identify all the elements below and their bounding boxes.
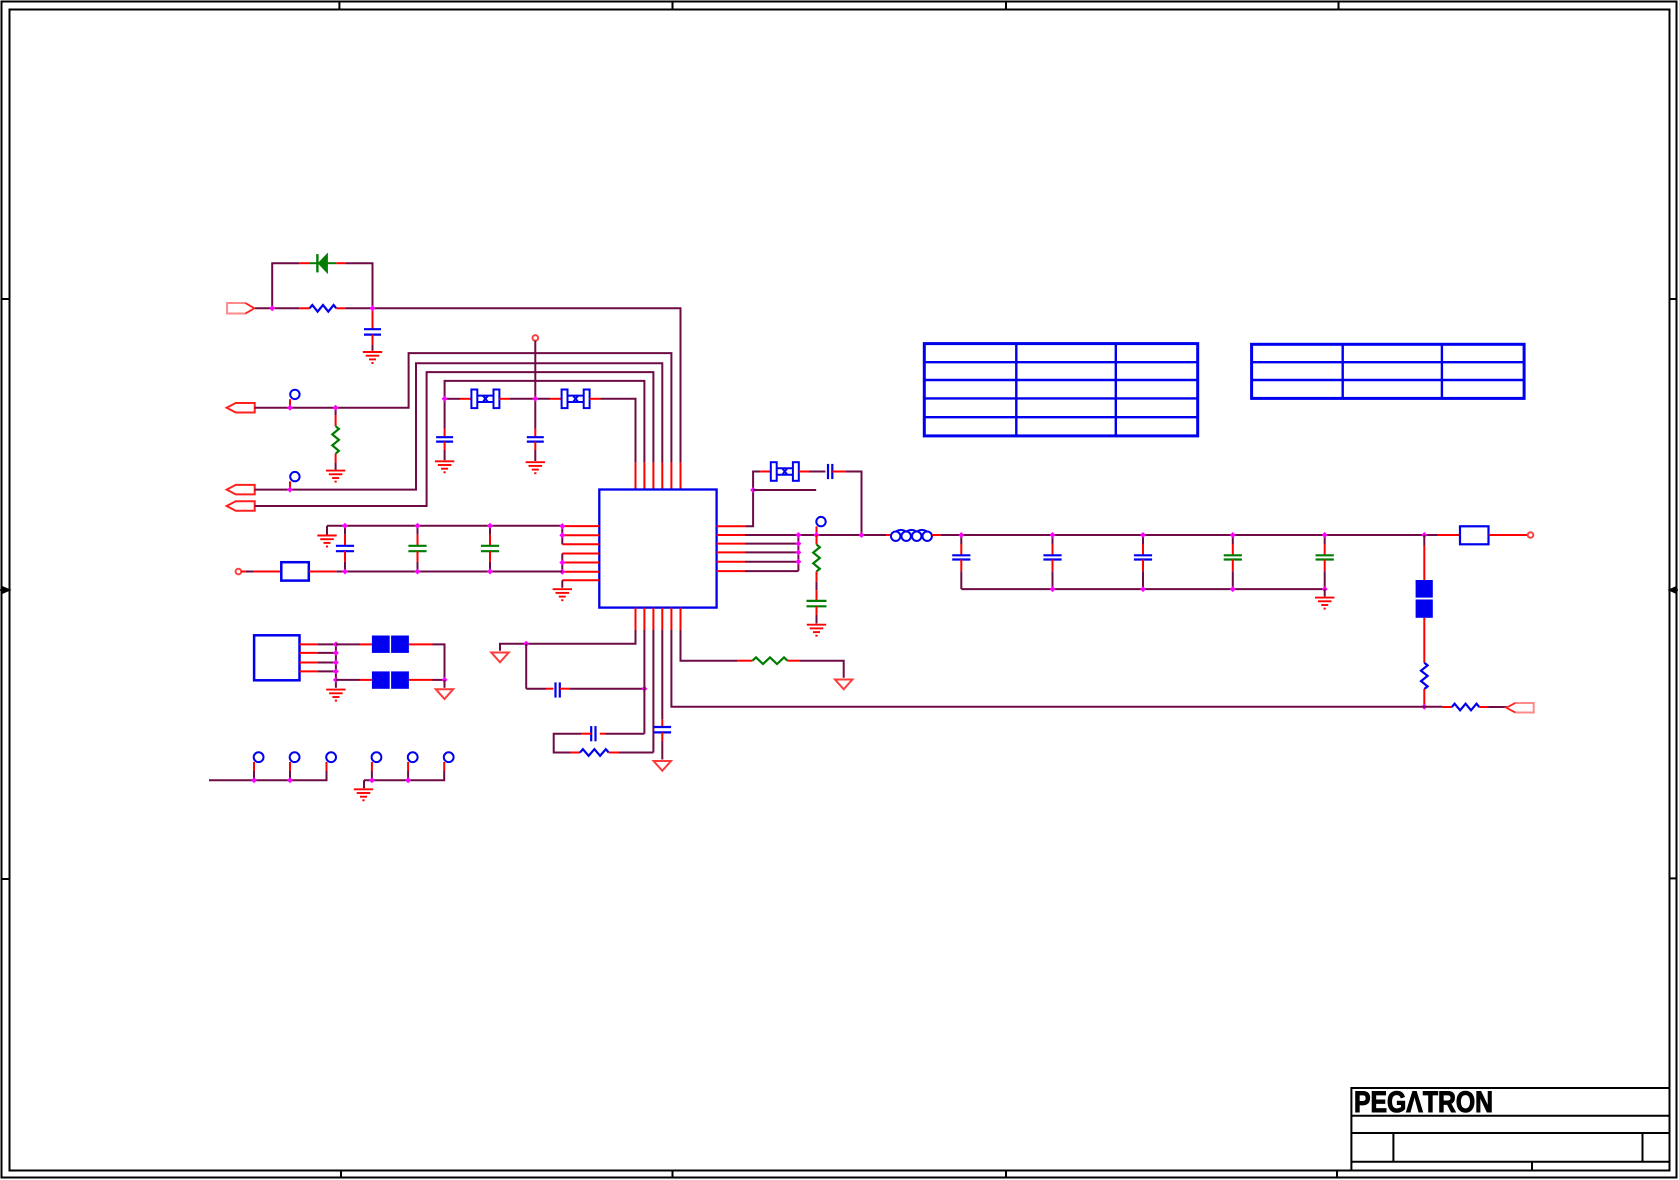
ground G9 [354,789,373,800]
wire node to triangle gnd [500,644,526,651]
IC U1 left pin 5 red [562,562,599,564]
revision table 1 [924,344,1197,436]
wire tie column right pins [797,535,799,571]
wire bottom pin4 net [661,630,663,720]
resistor R2 pin red bottom [335,454,337,463]
capacitor C6 [481,546,499,551]
capacitor C14 pin red right [560,688,570,690]
wire C15 right [606,733,645,735]
bubble circle K3 [816,517,825,526]
capacitor C5 stub bottom [417,551,419,562]
wire node B long run to IC pin 6 top [345,308,680,462]
junction C5 bus1 [415,523,421,529]
wire tie to fuse F2 [336,643,360,645]
junction node A [269,305,275,311]
capacitor C1 pin red bottom [372,335,374,345]
fuse F2 pin red right [409,643,433,645]
capacitor C9 [952,555,970,559]
resistor R1 pin red left [299,307,310,309]
testpoint TP3 stub red [326,762,328,771]
resistor R3 pin red top [816,535,818,545]
wire C14 to pin2 net [570,688,644,690]
IC U1 top pin 5 red [670,463,672,490]
wire port P1 to node A [255,307,272,309]
IC U1 bottom pin 2 red [643,608,645,630]
crystal Y3 pin red right [799,471,809,473]
resistor R6 [753,657,788,664]
wire R7 to pin3 net [619,752,653,754]
wire output rail [941,534,1437,536]
ground G8 [326,690,345,701]
wire pin7 to ground [561,580,563,588]
wire net P4 to IC pin 3 top [255,372,654,506]
capacitor C16 [654,727,672,732]
junction bus1-pin1 [559,523,565,529]
wire pin R1 up to crystal Y3 [745,472,760,527]
IC U1 bottom pin 3 red [652,608,654,630]
wire node A to resistor R1 [272,307,299,309]
inductor L2 pin red right [932,534,941,536]
crystal Y1 pin red right [499,398,510,400]
border zone tick bottom 3 [1005,1171,1007,1179]
border centre arrow right [1670,587,1679,593]
box FB1 pin red right [309,571,337,573]
crystal Y2 [562,390,590,409]
capacitor C7 [828,464,832,479]
junction C5 bus2 [415,569,421,575]
wire bus1 VDD rail [327,525,562,527]
wire C15 loop to R7 [554,734,581,753]
IC U1 top pin 2 red [643,463,645,490]
capacitor C10 [1043,555,1061,559]
wire J1 tie column [335,644,337,687]
capacitor C12 stub bottom [1232,560,1234,572]
wire bus1 left end to ground [326,526,328,535]
triangle ground TG3 [654,761,671,771]
wire R6 to triangle gnd [800,661,844,678]
resistor R1 [310,305,337,312]
IC U1 bottom pin 4 red [661,608,663,630]
port P4 [227,501,255,511]
title block outline [1351,1088,1669,1171]
capacitor C5 stub top [417,526,419,535]
junction C10 rail [1050,532,1056,538]
capacitor C2 pin red top [444,429,446,438]
resistor R2 [332,426,339,454]
junction R5 tie [795,559,801,565]
capacitor C3 pin red bottom [534,442,536,450]
capacitor C5 [408,546,426,551]
IC U1 bottom pin 1 red [635,608,637,630]
junction stub node R1 [750,487,756,493]
triangle ground TG4 [436,689,453,699]
capacitor C15 [591,726,595,741]
border zone tick bottom 4 [1336,1171,1338,1179]
capacitor C12 stub top [1232,535,1234,544]
capacitor C11 stub bottom [1142,560,1144,572]
IC U1 top pin 6 red [680,463,682,490]
wire right rail to ground [363,780,365,788]
junction node B [370,305,376,311]
junction R4 tie [795,549,801,555]
box FB2 pin red right [1489,534,1528,536]
wire C7 down to node VOUT [846,472,862,536]
diode D1 [309,254,336,273]
wire C8 to ground [816,615,818,624]
junction C6 bus2 [487,569,493,575]
resistor R6 pin red right [788,660,801,662]
resistor R4 [1421,663,1428,689]
ferrite bead FB2 [1460,526,1489,544]
capacitor C13 stub bottom [1324,560,1326,572]
junction C6 bus1 [487,523,493,529]
border zone tick right 1 [1670,298,1677,300]
ferrite bead FB1 [281,562,309,580]
crystal Y2 pin red right [589,398,600,400]
junction R3 tie [795,541,801,547]
wire divider dark upper [1423,535,1425,546]
wire J1 pin 4 [318,670,336,672]
fuse F3 pin red right [409,679,433,681]
triangle ground TG2 [491,653,508,663]
capacitor C15 pin red right [600,733,606,735]
resistor R5 pin red left [1442,706,1452,708]
inductor L2 [891,530,932,541]
junction C13 rail [1322,532,1328,538]
op-amp IC U1 [599,490,716,608]
wire R2 to ground [335,463,337,470]
ground G4 [526,462,545,473]
capacitor C16 pin red bottom [661,732,663,741]
capacitor C12 [1224,555,1242,559]
wire crystal row right down to IC pin 1 top [601,399,636,463]
capacitor C8 pin red top [816,590,818,601]
capacitor C6 stub bottom [489,551,491,562]
wire bottom pin2 net [643,630,645,734]
junction J1 tie 3 [333,660,339,666]
testpoint TP1 stub [253,771,255,780]
capacitor C9 stub top [960,535,962,544]
wire tie pins 4-6 [561,554,563,572]
junction TP4 [369,777,375,783]
border zone tick top 2 [672,2,674,10]
junction bottom pin1 node [523,641,529,647]
fuse F1 element b [1416,600,1433,618]
testpoint circle TP1 [254,752,264,762]
IC U1 right pin 6 red [717,570,745,572]
ground G5 [553,589,572,600]
IC U1 left pin 1 red [562,525,599,527]
resistor R2 pin red top [335,415,337,426]
wire bottom pin6 net [681,630,738,661]
ground G6 [807,625,826,636]
junction fuse node [442,677,448,683]
border zone tick left 1 [2,298,10,300]
junction TP1 [251,777,257,783]
crystal Y2 pin red left [550,398,562,400]
testpoint circle TP3 [326,752,336,762]
fuse F2 element b [391,636,409,653]
junction TP2 [287,777,293,783]
capacitor C13 [1316,555,1334,559]
wire crystal row left [445,398,460,400]
junction K3 node [814,532,820,538]
ground G7 [1315,598,1334,609]
capacitor C13 stub top [1324,535,1326,544]
capacitor C6 stub top [489,526,491,535]
wire R4 to bottom rail [1423,705,1425,707]
IC U1 right pin 2 red [717,534,745,536]
wire testpoint rail left [209,771,327,780]
wire gnd bus to ground [1324,589,1326,596]
wire F2 down to F3 node [433,644,445,680]
capacitor C14 [556,682,560,697]
capacitor C2 pin red bottom [444,442,446,450]
wire bus2 rail [336,571,562,573]
wire testpoint rail right [364,771,444,780]
wire C2 to ground [444,450,446,460]
junction C10 gnd bus [1050,586,1056,592]
testpoint TP2 stub [289,771,291,780]
IC U1 bottom pin 5 red [670,608,672,630]
wire node to resistor R2 [335,408,337,415]
wire C16 to triangle gnd [661,741,663,760]
junction P2-R2 [333,405,339,411]
IC U1 bottom pin 6 red [680,608,682,630]
svg-text:PEGΛTRON: PEGΛTRON [1354,1086,1493,1119]
junction C13 gnd bus [1322,586,1328,592]
ground G3 [435,461,454,472]
border centre arrow left [0,587,10,593]
terminal circle T1 [533,335,539,341]
junction divider top [1421,532,1427,538]
capacitor C1 [364,329,381,334]
junction pin2 tie [559,532,565,538]
junction bus2-pin6 [559,569,565,575]
border zone tick left 2 [2,878,10,880]
revision table 2 [1252,344,1525,398]
wire to C14 left [526,688,546,690]
inductor L2 pin red left [886,534,890,536]
junction P3-K2 [287,487,293,493]
wire stub dangling [753,489,816,491]
capacitor C3 pin red top [534,429,536,438]
junction J1 tie 5 [333,677,339,683]
IC U1 top pin 3 red [652,463,654,490]
connector J1 pin 1 red [300,643,319,645]
fuse F3 pin red left [360,679,372,681]
junction C4 bus1 [342,523,348,529]
wire node down to C14 [525,644,527,689]
T2 stub red [241,571,245,573]
IC U1 left pin 2 red [562,534,599,536]
testpoint circle TP2 [290,752,300,762]
junction J1 tie 4 [333,668,339,674]
wire J1 pin 3 [318,662,336,664]
testpoint TP6 stub red [443,762,445,771]
wire R3 to C8 [816,582,818,590]
wire pin R4 tie [745,551,798,553]
terminal circle T3 [1528,532,1534,538]
wire bottom pin5 long rail [671,630,1424,707]
capacitor C3 [527,437,544,441]
wire J1 pin 2 [318,652,336,654]
border zone tick top 4 [1338,2,1340,10]
junction C9 rail [958,532,964,538]
capacitor C10 stub top [1052,535,1054,544]
bubble circle K1 [290,390,299,399]
border zone tick top 3 [1005,2,1007,10]
triangle ground TG1 [835,680,852,690]
junction pin2 net C14 [641,686,647,692]
border zone tick right 2 [1670,877,1677,879]
capacitor C9 stub bottom [960,560,962,572]
fuse F1 element a [1416,580,1433,598]
junction C4 bus2 [342,569,348,575]
testpoint TP4 stub [371,771,373,780]
wire pin R5 tie [745,561,798,563]
wire tie to fuse F3 [336,679,360,681]
wire bottom pin1 net [526,630,635,644]
wire R5 to port P5 [1488,706,1507,708]
resistor R3 pin red bottom [816,572,818,582]
capacitor C8 pin red bottom [816,606,818,615]
IC U1 top pin 1 red [635,463,637,490]
port P5 [1506,703,1533,713]
junction R2 tie [795,532,801,538]
resistor R3 [813,545,820,572]
ground G2 [326,471,345,482]
border zone tick top 1 [338,2,340,10]
connector J1 pin 2 red [300,652,319,654]
wire net P3 to IC pin 4 top [255,363,663,489]
border zone tick bottom 1 [340,1171,342,1179]
port P2 [227,403,255,413]
wire between crystals [510,398,550,400]
wire gnd bus [961,588,1324,590]
IC U1 top pin 4 red [661,463,663,490]
ground G10 [317,536,336,547]
wire net P2 to IC pin 5 top [255,353,672,463]
junction C12 rail [1230,532,1236,538]
wire diode loop right leg [345,263,372,308]
bubble K3 stub red [816,526,818,535]
capacitor C4 stub bottom [344,551,346,562]
connector J1 [254,635,299,680]
bubble circle K2 [290,472,299,481]
capacitor C16 pin red top [661,720,663,727]
wire crystal node down to C3 [534,399,536,429]
junction Y3 branch node [859,532,865,538]
IC U1 left pin 6 red [562,571,599,573]
port P3 [227,485,255,495]
junction crystal centre node [532,396,538,402]
box FB2 pin red left [1437,534,1460,536]
IC U1 right pin 5 red [717,561,745,563]
border zone tick bottom 2 [672,1171,674,1179]
testpoint TP5 stub [407,771,409,780]
wire node A up-over diode loop left leg [272,263,299,308]
capacitor C4 stub top [344,526,346,535]
junction J1 tie 1 [333,641,339,647]
connector J1 pin 3 red [300,662,319,664]
port P1 input [227,303,254,314]
wire pin R2 to VOUT node [745,534,886,536]
junction bottom rail [1421,704,1427,710]
resistor R7 pin red left [571,752,581,754]
wire node to triangle [444,680,446,688]
IC U1 right pin 3 red [717,543,745,545]
wire fuse red lower [1423,618,1425,663]
junction P2-K1 [287,405,293,411]
capacitor C11 stub top [1142,535,1144,544]
resistor R5 [1452,704,1479,711]
diode D1 pin red left [299,262,309,264]
junction C12 gnd bus [1230,586,1236,592]
crystal Y1 [471,390,499,409]
crystal Y1 pin red left [460,398,472,400]
capacitor C7 pin red right [832,471,846,473]
resistor R7 [580,749,609,756]
fuse F2 pin red left [360,643,372,645]
resistor R1 pin red right [336,307,345,309]
wire C1 to ground [372,345,374,351]
wire R4 red lower [1423,689,1425,705]
wire tie pins 1-3 [561,526,563,545]
fuse F2 element a [372,636,390,653]
box FB1 pin red left [254,571,281,573]
junction pin5 tie [559,560,565,566]
wire J1 pin 1 [318,643,336,645]
wire T2 to box FB1 [246,571,254,573]
wire Y3 to C7 [809,471,825,473]
capacitor C15 pin red left [581,733,591,735]
bubble K1 stub red [289,399,291,408]
capacitor C10 stub bottom [1052,560,1054,572]
wire bottom pin3 net [652,630,654,753]
junction J1 tie 2 [333,650,339,656]
wire T1 down to crystal node [534,341,536,399]
junction C11 rail [1140,532,1146,538]
resistor R6 pin red left [737,660,753,662]
capacitor C11 [1134,555,1152,559]
bubble K2 stub red [289,481,291,489]
capacitor C8 [807,601,827,606]
IC U1 right pin 1 red [717,525,746,527]
capacitor C2 [436,437,453,441]
wire F3 to node [433,679,445,681]
connector J1 pin 4 red [300,670,319,672]
testpoint circle TP4 [372,752,382,762]
junction TP5 [405,777,411,783]
IC U1 left pin 4 red [562,553,599,555]
IC U1 left pin 7 red [562,579,599,581]
ground G1 [363,352,382,363]
resistor R7 pin red right [609,752,619,754]
wire crystal node over to IC pin 2 top [445,381,645,463]
fuse F3 element b [391,671,409,688]
IC U1 left pin 3 red [562,543,599,545]
testpoint circle TP6 [444,752,454,762]
resistor R5 pin red right [1479,706,1488,708]
crystal Y3 [771,462,799,481]
wire C3 to ground [534,450,536,461]
wire pin R3 tie [745,543,798,545]
terminal circle T2 [236,569,242,575]
fuse F3 element a [372,671,390,688]
capacitor C4 [336,546,354,551]
wire divider red to fuse [1423,546,1425,581]
